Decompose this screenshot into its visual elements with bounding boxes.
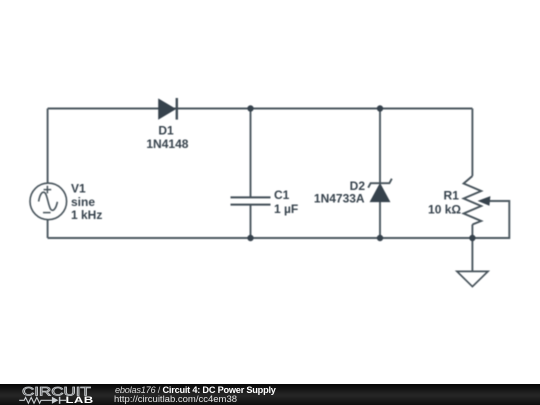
diode D1 cathode bar <box>176 98 178 120</box>
zener diode D2 cathode bar <box>368 179 392 188</box>
wire C1 top <box>250 109 252 198</box>
potentiometer R1 wiper arrow <box>479 197 490 205</box>
diode D1 triangle <box>159 99 176 119</box>
wire ground stem <box>471 238 473 271</box>
junction dot bottom C1 node <box>247 235 253 241</box>
svg-text:D1: D1 <box>158 124 174 138</box>
wire top rail <box>48 108 473 110</box>
wire R1 wiper loop <box>472 201 509 238</box>
svg-text:10 kΩ: 10 kΩ <box>428 203 461 217</box>
footer bar <box>0 384 540 405</box>
V1 sine wave <box>39 192 58 210</box>
wire R1 bottom <box>471 225 473 239</box>
capacitor C1 plates <box>231 197 271 204</box>
voltage source V1 circle <box>30 183 67 220</box>
wire D2 top <box>379 109 381 184</box>
svg-text:1N4733A: 1N4733A <box>314 192 365 206</box>
wire C1 bottom <box>250 205 252 238</box>
svg-text:1 µF: 1 µF <box>274 202 298 216</box>
svg-text:LAB: LAB <box>65 395 93 405</box>
svg-text:R1: R1 <box>444 189 460 203</box>
junction dot top D2 node <box>377 105 383 111</box>
logo wire and resistor zigzag <box>19 397 52 403</box>
junction dot top C1 node <box>247 105 253 111</box>
logo diode <box>52 397 59 404</box>
V1 plus sign <box>44 186 52 194</box>
wire R1 top <box>471 109 473 177</box>
junction dot bottom D2 node <box>377 235 383 241</box>
wire bottom rail <box>48 237 473 239</box>
svg-text:sine: sine <box>71 195 95 209</box>
svg-text:1 kHz: 1 kHz <box>71 208 102 222</box>
footer title line <box>115 386 276 395</box>
footer url line <box>114 395 237 405</box>
resistor R1 zigzag <box>464 176 482 225</box>
junction dot bottom R1/ground node <box>469 235 475 241</box>
wire D2 bottom <box>379 202 381 238</box>
svg-text:V1: V1 <box>71 181 86 195</box>
ground symbol <box>457 271 488 286</box>
zener diode D2 triangle <box>370 184 389 202</box>
wire left vertical from top rail to V1 <box>47 109 49 184</box>
CircuitLab logo <box>0 384 110 405</box>
wire V1 bottom to bottom rail <box>47 220 49 238</box>
V1 minus sign <box>43 212 51 214</box>
svg-text:C1: C1 <box>274 188 290 202</box>
svg-text:1N4148: 1N4148 <box>146 137 188 151</box>
